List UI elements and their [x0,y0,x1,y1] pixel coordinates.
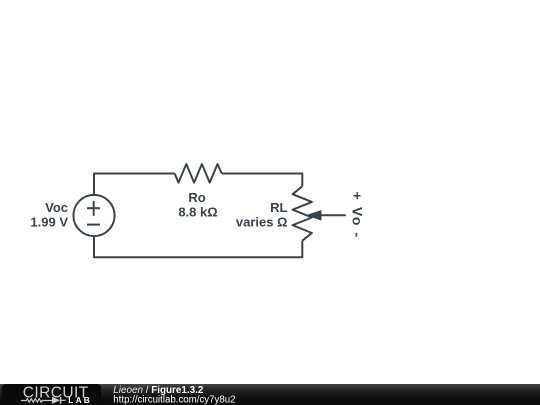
svg-text:1.99 V: 1.99 V [30,215,68,230]
svg-text:LAB: LAB [68,395,92,405]
svg-text:RL: RL [270,200,287,215]
svg-text:Ro: Ro [188,190,205,205]
svg-text:8.8 kΩ: 8.8 kΩ [178,205,217,220]
svg-text:Voc: Voc [45,200,68,215]
svg-text:+ Vo -: + Vo - [349,192,365,239]
svg-text:varies Ω: varies Ω [236,214,288,229]
svg-text:http://circuitlab.com/cy7y8u2: http://circuitlab.com/cy7y8u2 [113,394,235,405]
